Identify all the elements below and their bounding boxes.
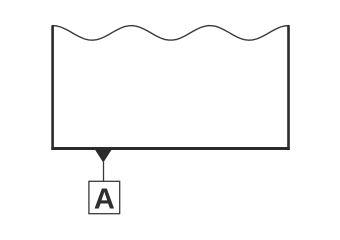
- svg-text:A: A: [94, 183, 115, 215]
- leader line: [103, 162, 105, 181]
- right edge of part: [287, 25, 290, 150]
- left edge of part: [51, 25, 54, 150]
- wavy break line (top edge of part): [53, 26, 289, 41]
- bottom edge of part (datum surface): [51, 147, 289, 150]
- datum frame box: [89, 181, 120, 213]
- datum feature triangle: [95, 150, 111, 163]
